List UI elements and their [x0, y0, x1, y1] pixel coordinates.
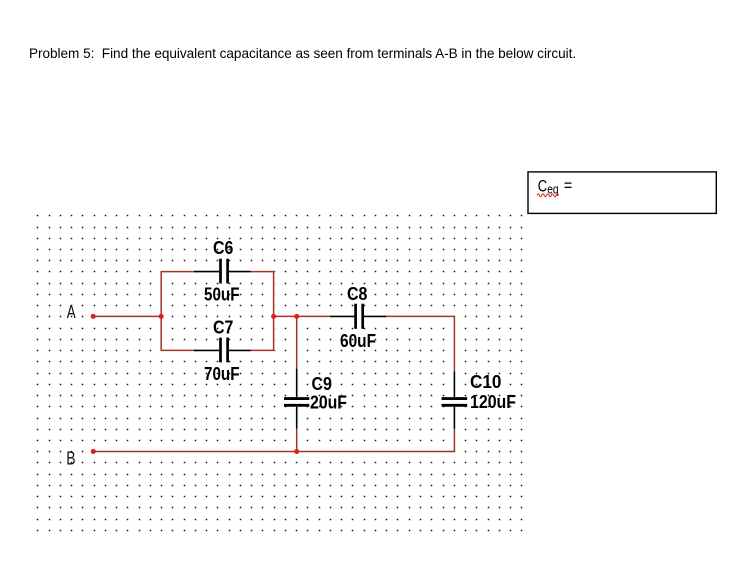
svg-text:50uF: 50uF [204, 284, 240, 305]
svg-text:C8: C8 [347, 283, 367, 304]
svg-text:120uF: 120uF [470, 391, 516, 412]
svg-text:C10: C10 [470, 371, 501, 392]
svg-text:60uF: 60uF [340, 330, 376, 351]
svg-text:A: A [67, 301, 76, 322]
svg-text:B: B [66, 447, 75, 468]
svg-text:C6: C6 [213, 237, 233, 258]
svg-text:20uF: 20uF [310, 392, 347, 413]
svg-text:C7: C7 [213, 317, 233, 338]
svg-text:C: C [538, 177, 547, 196]
svg-text:=: = [564, 176, 572, 195]
svg-text:70uF: 70uF [204, 363, 240, 384]
